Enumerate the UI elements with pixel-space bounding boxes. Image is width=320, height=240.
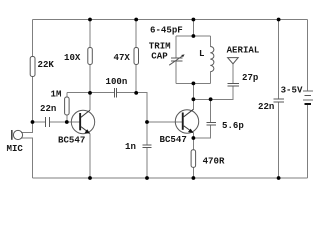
svg-text:L: L xyxy=(199,48,204,59)
wire mic bottom lead xyxy=(21,137,33,139)
node collector / aerial line xyxy=(192,97,196,101)
node mic / 22n xyxy=(31,120,35,124)
svg-text:100n: 100n xyxy=(106,76,128,87)
wire Q2 base line xyxy=(147,121,182,123)
wire tank right below coil xyxy=(209,72,211,84)
svg-text:22n: 22n xyxy=(258,101,274,112)
wire Q2 collector vertical rail to tank top xyxy=(192,20,194,37)
wire tank bottom to Q2 collector xyxy=(192,83,194,109)
wire 100n to 47X node then down to Q2 base node xyxy=(117,93,147,122)
node Q2 base / 1n xyxy=(145,120,149,124)
wire mic ground drop xyxy=(32,138,34,178)
wire Q2 emitter down through node xyxy=(192,132,194,150)
node junction dots xyxy=(31,18,281,180)
wire 47X bottom to bias node xyxy=(135,65,137,94)
wire tank left below trim cap xyxy=(175,61,177,83)
node top rail / tank xyxy=(192,18,196,22)
wire 47X branch top xyxy=(135,20,137,48)
capacitor 5.6p xyxy=(206,120,244,131)
wire 22n decoupling top xyxy=(278,20,280,100)
wire top supply rail xyxy=(33,19,308,21)
wire 22n to Q1 base xyxy=(50,121,80,123)
capacitor 27p xyxy=(228,72,259,86)
resistor 1M xyxy=(51,89,70,116)
wire tank bottom horizontal xyxy=(176,82,210,84)
node bottom rail / 1n xyxy=(145,176,149,180)
wire Q2 base node to 1n xyxy=(146,122,148,145)
svg-text:6-45pF: 6-45pF xyxy=(150,24,183,35)
wire tank right above coil xyxy=(209,36,211,47)
node Q2 emitter xyxy=(192,136,196,140)
inductor L xyxy=(199,47,214,72)
node Q1 collector bias xyxy=(88,91,92,95)
capacitor 100n (interstage coupling) xyxy=(106,76,128,98)
wire left vertical 22K to mic top lead xyxy=(32,77,34,133)
trim capacitor 6-45pF xyxy=(149,24,185,65)
svg-text:22n: 22n xyxy=(40,103,56,114)
wire emitter node to 5.6p xyxy=(193,125,210,138)
transistor Q2 BC547 xyxy=(160,109,199,145)
svg-text:BC547: BC547 xyxy=(58,135,85,146)
svg-text:10X: 10X xyxy=(64,52,81,63)
wire tank left above trim cap xyxy=(175,36,177,58)
svg-text:BC547: BC547 xyxy=(160,134,187,145)
aerial antenna symbol xyxy=(227,45,260,64)
wire 1M top lead xyxy=(66,93,68,97)
node bottom rail / 470R xyxy=(192,176,196,180)
svg-text:3-5V: 3-5V xyxy=(281,85,303,96)
svg-text:MIC: MIC xyxy=(7,143,24,154)
wire Q1 emitter to ground xyxy=(89,133,91,178)
transistor Q1 BC547 xyxy=(58,110,95,146)
resistor 22K xyxy=(30,57,54,77)
wire mic node to 22n xyxy=(33,121,45,123)
svg-text:470R: 470R xyxy=(203,156,225,167)
node top rail / 47X xyxy=(134,18,138,22)
wire 1n to ground xyxy=(146,148,148,178)
svg-text:27p: 27p xyxy=(242,72,259,83)
capacitor 1n xyxy=(125,141,152,152)
wire 27p to antenna xyxy=(232,64,234,84)
svg-text:CAP: CAP xyxy=(151,51,168,62)
microphone MIC xyxy=(7,130,24,154)
svg-text:47X: 47X xyxy=(114,52,131,63)
svg-text:22K: 22K xyxy=(38,59,55,70)
capacitor 22n (mic coupling) xyxy=(40,103,56,127)
capacitor 22n (decoupling) xyxy=(258,99,284,112)
svg-text:1M: 1M xyxy=(51,89,62,100)
wire 10X bottom to Q1 collector xyxy=(89,65,91,111)
node tank top xyxy=(192,34,196,38)
wire mic top lead xyxy=(21,131,33,133)
node 5.6p top xyxy=(209,97,213,101)
svg-text:1n: 1n xyxy=(125,141,136,152)
wire bias line 1M to 100n xyxy=(67,92,115,94)
wire tank top horizontal xyxy=(176,35,210,37)
wire right vertical rail to battery xyxy=(307,20,309,91)
node top rail / 10X xyxy=(88,18,92,22)
resistor 47X xyxy=(114,48,139,65)
node top rail / 22n xyxy=(277,18,281,22)
battery 3-5V xyxy=(281,85,313,104)
svg-text:AERIAL: AERIAL xyxy=(227,45,260,56)
resistor 10X xyxy=(64,48,92,65)
node bottom rail / 22n xyxy=(277,176,281,180)
wire 5.6p top to collector line xyxy=(210,99,212,122)
wire 1M bottom lead to base line xyxy=(66,115,68,122)
node tank bottom xyxy=(192,82,196,86)
wire battery to bottom rail xyxy=(307,105,309,179)
wire 22n decoupling bottom xyxy=(278,102,280,178)
node 1M / Q1 base xyxy=(65,120,69,124)
resistor 470R xyxy=(191,150,225,168)
wire 10X branch top xyxy=(89,20,91,48)
wire 470R to ground xyxy=(192,167,194,178)
node 47X / 100n xyxy=(134,91,138,95)
node bottom rail / Q1 emitter xyxy=(88,176,92,180)
wire bottom ground rail xyxy=(33,177,308,179)
wire collector node to aerial branch xyxy=(193,86,233,99)
wire left vertical from top rail to 22K xyxy=(32,20,34,57)
svg-text:5.6p: 5.6p xyxy=(222,120,244,131)
